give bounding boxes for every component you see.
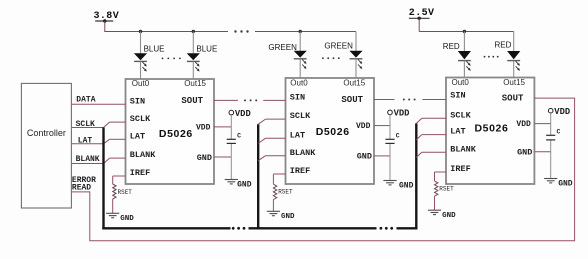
wire U1 GND pin to ground node — [214, 156, 231, 158]
wire OVDD vertical through C at U2 — [389, 115, 391, 181]
node 3.8V-LED2 junction — [192, 30, 195, 33]
svg-text:GND: GND — [357, 152, 372, 162]
svg-text:C: C — [237, 133, 241, 140]
wire U1 IREF to RSET1 — [113, 176, 126, 213]
svg-text:D5026: D5026 — [475, 122, 509, 134]
svg-text:GND: GND — [558, 179, 573, 188]
bus continuation dots — [232, 227, 393, 230]
svg-text:Out15: Out15 — [503, 78, 525, 87]
resistor RSET2 — [273, 184, 293, 199]
LED driver IC U3 D5026 — [446, 78, 534, 185]
svg-text:VDD: VDD — [235, 109, 251, 119]
svg-text:Out0: Out0 — [290, 79, 308, 88]
wire U2 VDD pin to OVDD node — [374, 125, 390, 127]
wire U3 VDD pin to OVDD node — [534, 123, 550, 125]
svg-text:RSET: RSET — [118, 189, 133, 196]
svg-text:Out0: Out0 — [132, 79, 150, 88]
wire U2 SOUT to U3 SIN (with ellipsis) — [374, 99, 446, 101]
svg-text:VDD: VDD — [196, 124, 211, 133]
svg-text:VDD: VDD — [394, 109, 410, 119]
svg-text:GND: GND — [197, 153, 212, 163]
svg-text:SIN: SIN — [130, 96, 145, 106]
LED D1 blue (anode to 3.8V, cathode to U1 Out0) — [134, 32, 147, 80]
ground at C1 — [225, 180, 252, 190]
svg-text:SOUT: SOUT — [341, 95, 363, 105]
wire BLANK: controller to U1 BLANK and bus entry — [71, 155, 125, 164]
ground at RSET1 — [106, 213, 134, 223]
ground at RSET2 — [267, 211, 295, 221]
svg-text:GND: GND — [120, 215, 134, 223]
svg-text:BLUE: BLUE — [144, 45, 165, 54]
resistor RSET3 — [435, 181, 455, 196]
svg-text:GND: GND — [237, 180, 252, 189]
ellipsis between D5 and D6 — [484, 56, 499, 58]
wire U3 GND pin to ground node — [534, 151, 550, 153]
LED D3 green (cathode to U2 Out0) — [294, 32, 307, 79]
svg-text:BLANK: BLANK — [290, 148, 316, 158]
svg-text:SIN: SIN — [450, 91, 465, 101]
svg-text:RSET: RSET — [278, 189, 293, 196]
svg-text:VDD: VDD — [554, 107, 570, 117]
svg-text:SCLK: SCLK — [290, 111, 311, 121]
wire 2.5V rail — [419, 31, 514, 33]
ellipsis between D3 and D4 — [322, 57, 340, 59]
bus entries to U2 SCLK/LAT/BLANK — [258, 119, 285, 161]
bus SCLK/LAT/BLANK (thick) — [102, 123, 417, 229]
wire SCLK: controller to U1 SCLK and bus entry — [71, 120, 125, 129]
node 3.8V-LED1 junction — [139, 30, 142, 33]
LED D4 green (cathode to U2 Out15) — [349, 32, 362, 79]
bus entries to U3 SCLK/LAT/BLANK — [416, 118, 446, 157]
svg-text:LAT: LAT — [290, 130, 305, 140]
svg-text:SCLK: SCLK — [450, 110, 471, 120]
LED D6 red (cathode to U3 Out15) — [507, 32, 520, 78]
svg-text:LAT: LAT — [130, 131, 145, 141]
svg-text:D5026: D5026 — [316, 126, 350, 138]
node 2.5V-LED5 junction — [463, 30, 466, 33]
ground at RSET3 — [428, 210, 456, 220]
wire DATA: controller to U1 SIN — [71, 96, 125, 105]
svg-text:RSET: RSET — [439, 186, 454, 193]
svg-text:RED: RED — [443, 42, 460, 51]
svg-text:Controller: Controller — [27, 128, 66, 138]
svg-text:SIN: SIN — [290, 93, 305, 103]
svg-text:GND: GND — [399, 181, 414, 190]
pin labels U2 — [290, 79, 372, 176]
ground at C2 — [383, 181, 413, 191]
LED driver IC U1 D5026 — [126, 79, 215, 184]
controller U0 — [21, 83, 71, 208]
svg-text:GND: GND — [517, 148, 532, 158]
svg-text:VDD: VDD — [356, 122, 371, 131]
svg-text:GREEN: GREEN — [324, 41, 353, 50]
power port OVDD at U2 — [388, 109, 410, 119]
svg-text:C: C — [396, 133, 400, 140]
svg-text:GREEN: GREEN — [268, 43, 297, 52]
svg-text:BLANK: BLANK — [76, 155, 100, 164]
capacitor C3 (decoupling at U3) — [546, 129, 560, 140]
power port OVDD at U3 — [548, 107, 570, 117]
power net 3.8V — [94, 11, 120, 32]
svg-text:READ: READ — [72, 184, 91, 193]
LED D2 blue (cathode to U1 Out15) — [187, 32, 200, 80]
svg-text:D5026: D5026 — [159, 128, 193, 140]
svg-text:RED: RED — [495, 41, 512, 50]
wire OVDD vertical through C at U1 — [230, 115, 232, 180]
wire OVDD vertical through C at U3 — [550, 113, 552, 179]
ellipsis between D1 and D2 — [162, 58, 181, 60]
node 3.8V-LED3 junction — [299, 30, 302, 33]
svg-text:BLANK: BLANK — [450, 144, 476, 154]
svg-text:SOUT: SOUT — [181, 96, 203, 106]
svg-text:Out15: Out15 — [184, 79, 206, 88]
wire LAT: controller to U1 LAT and bus entry — [71, 137, 125, 146]
wire U2 GND pin to ground node — [374, 155, 390, 157]
svg-text:GND: GND — [281, 213, 295, 221]
LED driver IC U2 D5026 — [286, 78, 375, 184]
pin labels U1 — [130, 79, 212, 178]
power net 2.5V — [409, 8, 435, 32]
svg-text:BLANK: BLANK — [130, 150, 156, 160]
svg-text:SOUT: SOUT — [502, 94, 524, 104]
wire U3 IREF to RSET3 — [435, 172, 447, 210]
wire ERROR READ: U3 SOUT feedback loop to controller — [71, 98, 574, 241]
ground at C3 — [544, 179, 573, 189]
svg-text:IREF: IREF — [130, 168, 150, 178]
pin labels U3 — [450, 78, 532, 174]
wire U2 IREF to RSET2 — [273, 174, 285, 211]
svg-text:C: C — [557, 129, 561, 136]
capacitor C1 (decoupling at U1) — [227, 133, 241, 144]
wire 3.8V rail continuation dots — [234, 30, 248, 32]
svg-text:2.5V: 2.5V — [409, 8, 435, 19]
svg-text:DATA: DATA — [76, 96, 95, 105]
resistor RSET1 — [113, 184, 133, 199]
capacitor C2 (decoupling at U2) — [385, 133, 399, 144]
svg-text:LAT: LAT — [450, 127, 465, 137]
svg-text:SCLK: SCLK — [130, 114, 151, 124]
wire U1 SOUT to U2 SIN (with ellipsis) — [214, 99, 286, 101]
svg-text:VDD: VDD — [516, 120, 531, 129]
svg-text:IREF: IREF — [290, 166, 310, 176]
svg-text:LAT: LAT — [78, 137, 93, 146]
wire U1 VDD pin to OVDD node — [214, 126, 231, 128]
svg-text:SCLK: SCLK — [76, 120, 95, 129]
svg-text:Out15: Out15 — [343, 79, 365, 88]
wire 3.8V rail — [104, 31, 356, 33]
svg-text:IREF: IREF — [450, 164, 470, 174]
svg-text:Out0: Out0 — [452, 78, 470, 87]
LED D5 red (anode to 2.5V, cathode to U3 Out0) — [458, 32, 471, 78]
svg-text:BLUE: BLUE — [196, 45, 217, 54]
svg-text:GND: GND — [442, 212, 456, 220]
power port OVDD at U1 — [229, 109, 251, 119]
